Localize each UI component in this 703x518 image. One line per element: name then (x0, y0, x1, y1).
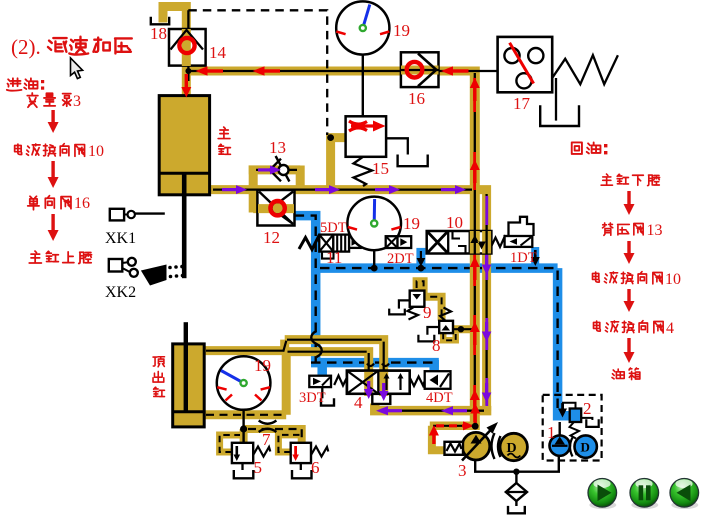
cylinder main 主缸 (159, 96, 209, 279)
relief valve 8 (418, 308, 453, 342)
wire black center return band (380, 410, 484, 412)
mouse cursor (71, 58, 83, 79)
wire purple trace segments on return trunk (485, 196, 488, 406)
wire black gauge2 stem (373, 251, 375, 269)
wire yellow gauge loop right vertical (282, 354, 291, 415)
wire purple down arrows through valve 4 (364, 381, 389, 401)
wire hop marks where bands A/B cross blue pilot (367, 364, 389, 367)
wire yellow top line to valve 14 (186, 67, 479, 76)
valve 16 check (401, 52, 439, 87)
油箱 (612, 369, 624, 379)
电液换向阀10 right (593, 272, 600, 282)
wire black center pump3 inlet (433, 425, 474, 427)
wire purple left arrows on return band (376, 406, 467, 415)
wire red down arrow into main cylinder (181, 74, 191, 98)
solenoid 3DT (309, 376, 334, 406)
pressure switch 17 (498, 37, 553, 92)
spring of 17 (552, 55, 618, 84)
wire black center loop13 top (256, 169, 297, 171)
背压阀13 (603, 223, 613, 235)
wire yellow gauge loop bottom band (204, 410, 286, 419)
orifice 7 (259, 421, 277, 433)
wire dash overlay on blue left trunk (295, 216, 439, 363)
svg-text:4: 4 (666, 320, 674, 337)
wire yellow valve 8 bottom loop (443, 333, 456, 340)
wire yellow supply trunk (470, 67, 480, 427)
wire black center of valve14 riser (187, 10, 189, 81)
wire blue drain from 2DT valve (416, 248, 425, 268)
gauge 19 bottom (217, 356, 271, 410)
wire red left arrows on top line (196, 66, 469, 75)
filter (506, 472, 527, 514)
wire black down arrow into valve 2 (558, 403, 567, 418)
relief valve 6 (291, 443, 329, 479)
wire yellow ejector top band (204, 340, 285, 351)
wire black center manifold (213, 188, 472, 190)
wire black center of top line (189, 70, 498, 72)
wire dashed pilot line from valve 14 to valve15 junction (188, 10, 327, 135)
wire black center return trunk (485, 194, 487, 405)
XK2 switch (109, 258, 185, 286)
主缸上腔 (29, 251, 41, 263)
wire red dash arrow pump3 inlet line (436, 424, 464, 427)
wire blue pilot horizontal to 3DT/4DT (311, 358, 439, 368)
valve 11 5DT row (299, 235, 361, 259)
relief valve 2 (563, 403, 599, 439)
wire blue drop to 4DT (429, 360, 439, 374)
主缸 label (218, 127, 230, 138)
relief valve 5 (232, 443, 270, 479)
wire blue mid horizontal drain line (316, 263, 558, 273)
red arrows left column (48, 110, 59, 241)
wire yellow manifold and return trunk (210, 190, 487, 411)
wire black center valve8 outlet (452, 328, 473, 330)
主缸下腔 (601, 174, 612, 185)
valve 10 directional (427, 217, 534, 254)
gauge 19 middle (347, 197, 401, 251)
wire yellow pump 3 inlet line (430, 422, 480, 431)
wire black center ejector top band (206, 340, 384, 371)
wire yellow pump 3 control loop (432, 426, 445, 450)
wire yellow pilot staircase valve 9 to 8 (417, 281, 442, 320)
wire yellow return band bottom (375, 404, 492, 411)
gauge 19 top (336, 1, 389, 54)
valve 4 directional (334, 371, 425, 396)
pump 1 (550, 422, 597, 458)
XK1 switch (110, 209, 165, 221)
svg-text:3: 3 (73, 93, 81, 110)
wire blue drop to 3DT (317, 363, 327, 376)
cylinder ejector 顶出缸 (173, 322, 205, 427)
button play (588, 479, 617, 510)
顶出缸 label (153, 357, 164, 367)
wire dash overlay on blue mid+right trunk (320, 268, 558, 412)
wire hop marks where bands cross blue trunk (311, 331, 322, 357)
wire yellow valve14 riser and tank bend (163, 7, 186, 96)
进油: (7, 78, 22, 90)
tank T17 (540, 105, 579, 126)
wire black down arrow on 1DT drain (531, 250, 540, 266)
wire black gauge1 stem (362, 55, 364, 117)
wire red up arrow pump3 outlet (429, 403, 480, 444)
wire blue drain from 1DT valve (531, 247, 539, 265)
wire black dashes pilot loops 5/6 (220, 435, 300, 452)
wire blue pipe from valve 12 down-left trunk (295, 216, 316, 363)
电液换向阀10 (15, 144, 22, 154)
wire black suction line pump3-filter-pump1 (475, 456, 559, 472)
solenoid 4DT (425, 371, 451, 389)
wire yellow pilot loop valve 6 (278, 435, 301, 452)
tank T18 (151, 17, 169, 25)
wire yellow band A to valve 4 right feed (285, 340, 384, 373)
wire red up arrows on supply trunk (470, 78, 480, 411)
wire yellow branch to valve 15 and down to manifold (331, 138, 346, 190)
valve 14 prefill (169, 29, 206, 66)
tank T4 below valve 4 (372, 395, 390, 404)
单向阀16 (28, 196, 39, 209)
wire yellow orifice line to valve 6 (244, 429, 302, 444)
black labels (105, 230, 136, 301)
relief valve 9 (389, 291, 424, 320)
wire yellow valve 8 outlet to trunk (452, 325, 470, 333)
wire yellow band B to valve 4 left feed (283, 352, 369, 373)
trunk overlays through valve 10 (470, 231, 480, 254)
dashed box pump 1 unit (543, 395, 602, 461)
wire purple down arrows on return trunk (482, 255, 492, 403)
wire black dashes staircase 9-8 (417, 281, 442, 318)
wire yellow pilot loop valve 5 (220, 435, 240, 452)
wire black dashes orifice line (248, 429, 302, 442)
wire purple right arrows on manifold (222, 165, 466, 194)
svg-text:10: 10 (88, 143, 104, 160)
valve 12 cartridge (257, 190, 294, 226)
svg-text:10: 10 (665, 271, 681, 288)
wire black dashes valve8 bottom loop (443, 333, 456, 340)
wire yellow loop of valves 13/12 (249, 166, 301, 213)
wire blue right trunk down to valve 2 (558, 268, 570, 416)
wire black dashes gauge loop bottom band (206, 414, 284, 416)
wire black gauge3 stem (242, 383, 244, 443)
电液换向阀4 (594, 321, 601, 331)
button rewind (670, 479, 699, 510)
pump 3 variable (445, 422, 528, 461)
drain of 17 (555, 78, 557, 121)
check valve 13 (270, 156, 290, 182)
wire red trace segments on supply trunk (473, 78, 476, 422)
component number labels (150, 21, 592, 480)
valve 2DT pilot (386, 236, 412, 248)
button pause (630, 479, 659, 510)
变量泵3 (27, 93, 38, 107)
title chars 减速加压 (48, 38, 67, 52)
svg-text:13: 13 (647, 222, 663, 239)
valve 15 reducing (346, 116, 428, 186)
red arrows right column (624, 191, 635, 363)
wire black center 2DT drain (420, 251, 422, 259)
回油: (572, 142, 582, 154)
wire black center supply trunk (474, 73, 476, 423)
svg-text:16: 16 (74, 195, 90, 212)
